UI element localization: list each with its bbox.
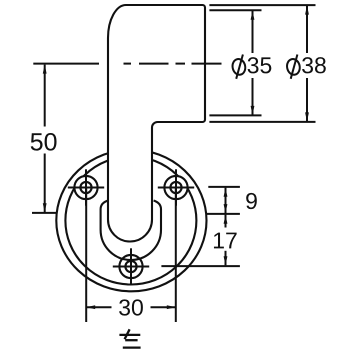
dim 50 extension top [33,63,99,65]
dim phi38 line [306,6,308,121]
flange inner circle [65,157,196,285]
kanji label (clipped) below 30 [119,329,140,347]
screw hole bottom (131,266.5) [113,248,149,284]
screw hole left (86,187.5) [68,169,104,205]
phi symbol 38 [286,55,301,79]
dim phi38 extension lines [209,4,315,6]
dim phi35 extension lines [209,9,261,11]
screw hole right (176,187.5) [158,169,194,205]
dim 30 text [119,299,130,315]
dim 50 text [31,133,43,150]
dim 50 arrows [43,64,47,73]
dim phi38 arrows [305,5,309,14]
dim 17 line + arrows [225,215,227,266]
pipe centerline dash-dot [124,63,222,65]
dim 38 text [302,57,313,73]
dim 35 text [248,57,259,73]
phi symbol 35 [231,55,246,79]
dim phi35 line [252,11,254,115]
dim 30 extension lines [85,188,87,322]
socket collar outline [101,201,161,261]
dim 17 text [214,233,224,249]
dim 50 line [44,65,46,213]
dim phi35 arrows [251,11,255,20]
dim 9/17 extension lines [208,186,240,188]
dim 9 text [246,193,257,209]
pipe elbow body [108,5,205,242]
dim 30 line + arrows [86,306,176,308]
socket collar fill [101,201,161,261]
dim 50 extension bottom [32,212,57,214]
dim 9 line + arrows [225,188,227,214]
flange outer circle [56,150,206,292]
